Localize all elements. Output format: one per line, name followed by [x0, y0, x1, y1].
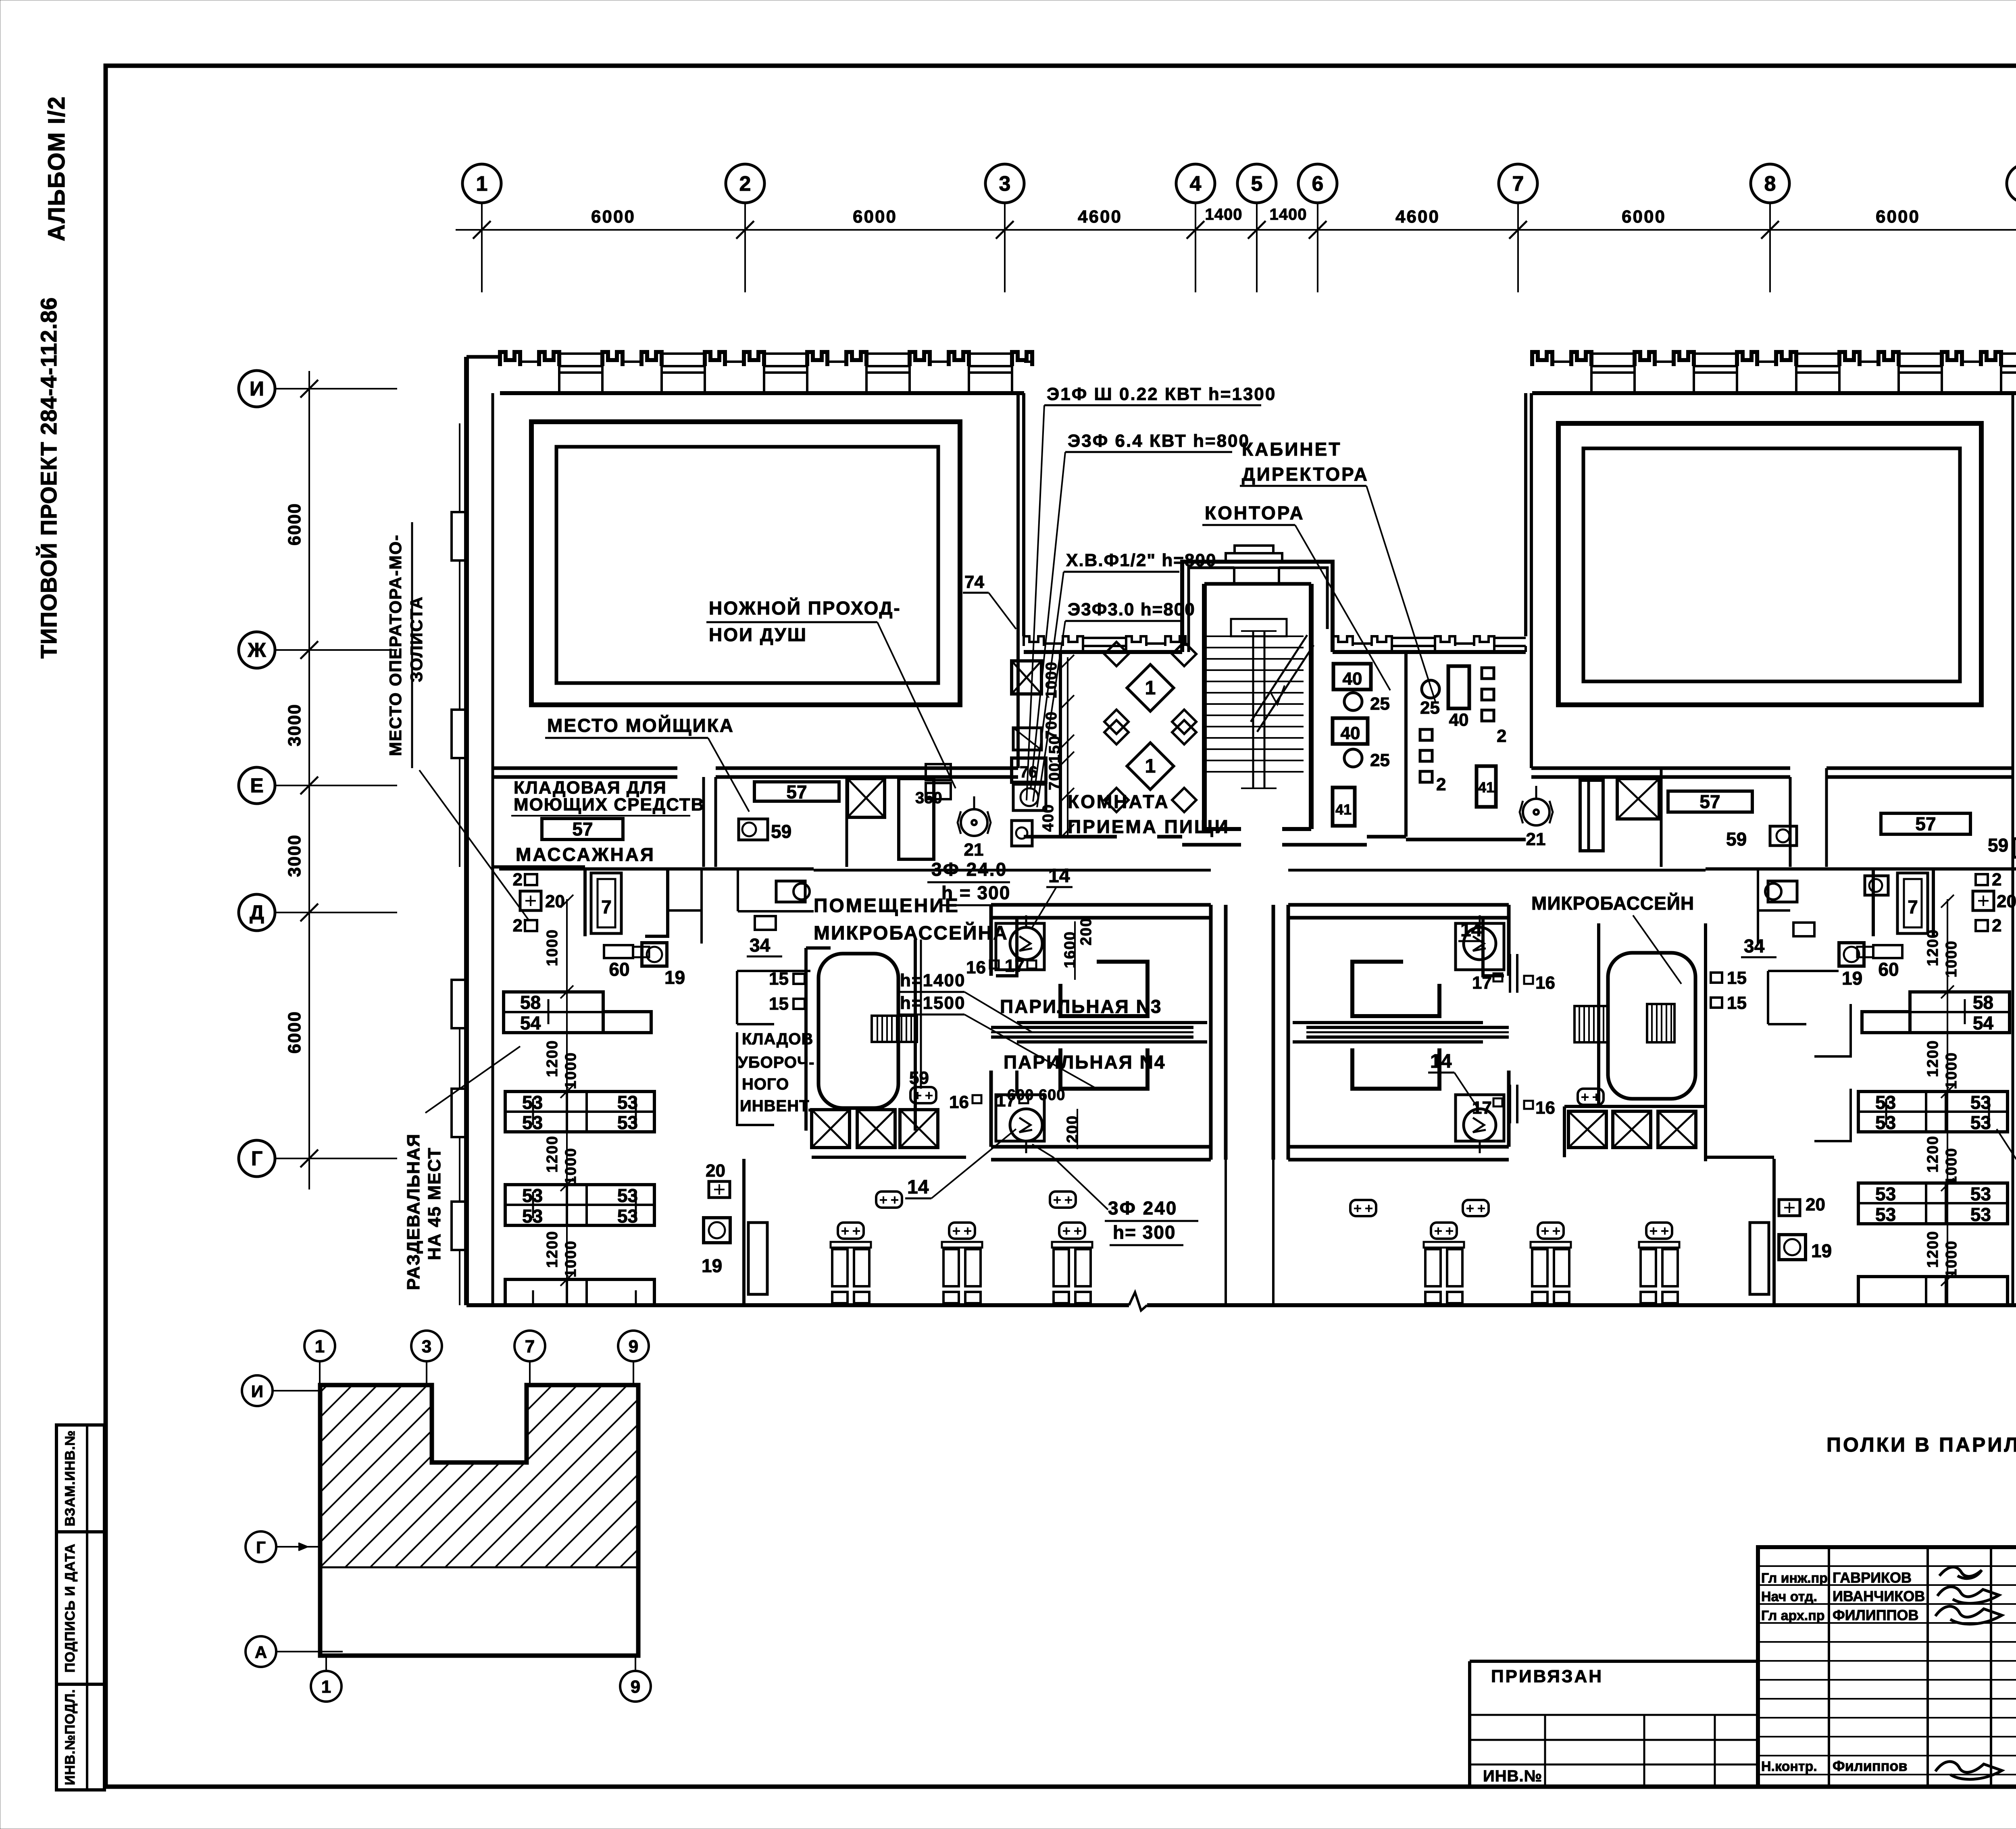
leader ножной душ: [877, 622, 956, 788]
svg-text:МЕСТО ОПЕРАТОРА-МО-: МЕСТО ОПЕРАТОРА-МО-: [386, 534, 405, 756]
equipment box 57 right no.1: [1668, 791, 1752, 812]
grid axis circle 4: [1176, 164, 1215, 203]
toilet fixture right: [1768, 881, 1797, 902]
svg-text:25: 25: [1420, 698, 1440, 718]
svg-text:h= 300: h= 300: [1113, 1222, 1176, 1243]
svg-text:150: 150: [1046, 735, 1063, 763]
note leader 2: [1031, 452, 1065, 790]
svg-text:И: И: [250, 377, 264, 400]
svg-text:19: 19: [1842, 968, 1862, 989]
svg-text:h=1400: h=1400: [900, 971, 965, 990]
svg-text:А: А: [255, 1643, 267, 1662]
svg-text:1000: 1000: [562, 1148, 579, 1185]
svg-text:6000: 6000: [591, 207, 635, 227]
dim chain entry: [1067, 657, 1068, 837]
parilnya right block top wall: [1288, 903, 1509, 907]
corridor walls to floor: [1225, 1160, 1227, 1305]
svg-text:2: 2: [1497, 726, 1506, 746]
note leader 4: [1037, 621, 1065, 807]
bench row partial bottom right: [1858, 1277, 2008, 1305]
stove heater N3: [1010, 927, 1042, 960]
svg-text:21: 21: [1526, 829, 1546, 849]
parilnya N4 walls: [989, 1071, 993, 1147]
lower centre top wall right: [1288, 869, 1706, 872]
key plan axis circle 9 top: [618, 1331, 649, 1361]
top dimension line: [456, 229, 2016, 231]
svg-text:54: 54: [520, 1012, 541, 1033]
wash hall bottom wall left wing: [493, 767, 677, 770]
svg-text:2: 2: [513, 870, 523, 890]
stair bottom walls with door: [1204, 827, 1241, 831]
equipment box 57 no.1: [542, 819, 623, 840]
bench row 58-54 left: [504, 992, 603, 1033]
svg-text:h=1500: h=1500: [900, 993, 965, 1013]
partition wall kladovaya: [493, 865, 585, 869]
svg-text:53: 53: [617, 1092, 638, 1113]
left document strip: [56, 1425, 104, 1790]
svg-text:53: 53: [617, 1112, 638, 1133]
parilnya corridor wall right: [1272, 905, 1275, 1160]
svg-text:40: 40: [1449, 710, 1469, 730]
svg-text:ПОЛКИ В ПАРИЛЬНЫХ N3 И N4: ПОЛКИ В ПАРИЛЬНЫХ N3 И N4 СМ. ЛИСТ 35.: [1826, 1433, 2016, 1456]
microbassein pool right: [1608, 953, 1695, 1099]
parilnya bottom wall: [991, 1145, 1211, 1149]
floor drain 21 right: [1523, 799, 1549, 825]
dressing top wall right: [1933, 867, 2016, 871]
svg-text:КОНТОРА: КОНТОРА: [1205, 502, 1305, 523]
right wing top castellated wall: [1532, 391, 2016, 395]
svg-text:40: 40: [1343, 669, 1362, 689]
svg-text:1600: 1600: [1062, 931, 1079, 969]
svg-text:19: 19: [1811, 1240, 1832, 1261]
right wing inner wall left side: [1530, 393, 1533, 768]
dressing dim chain left: [566, 899, 568, 1305]
svg-text:ПРИВЯЗАН: ПРИВЯЗАН: [1491, 1667, 1603, 1686]
svg-text:200: 200: [1078, 917, 1095, 945]
fixture 20 left: [520, 891, 541, 910]
svg-text:57: 57: [572, 819, 593, 840]
svg-text:700: 700: [1046, 762, 1063, 790]
sink small right: [1865, 876, 1888, 895]
fixture 19 right: [1839, 943, 1864, 966]
floor drain 21 left: [961, 809, 987, 836]
svg-text:53: 53: [1970, 1092, 1991, 1113]
bench row 53 right lower: [1858, 1183, 2008, 1224]
svg-text:ИВАНЧИКОВ: ИВАНЧИКОВ: [1833, 1588, 1925, 1604]
office fixture circle 25 no.1: [1344, 693, 1362, 710]
parilnya N4 inner top wall: [1017, 1040, 1207, 1044]
title block signature columns: [1828, 1547, 1830, 1787]
svg-text:2: 2: [1436, 775, 1446, 794]
fixtures 15 right: [1711, 973, 1722, 983]
svg-text:6000: 6000: [1876, 207, 1920, 227]
title block signature rows: [1758, 1565, 2016, 1567]
grid axis circle Е: [239, 767, 275, 804]
sink fixture 59 left: [739, 819, 768, 840]
svg-text:9: 9: [629, 1337, 638, 1356]
microbassein room walls right: [1597, 923, 1600, 1105]
svg-text:Ж: Ж: [247, 639, 266, 661]
svg-text:19: 19: [702, 1255, 722, 1276]
title block outline: [1758, 1547, 2016, 1787]
grid axis circle 3: [985, 164, 1024, 203]
svg-text:25: 25: [1370, 694, 1390, 714]
svg-text:Э3Ф3.0 h=800: Э3Ф3.0 h=800: [1068, 600, 1195, 619]
svg-text:1200: 1200: [1924, 929, 1941, 967]
svg-text:КАБИНЕТ: КАБИНЕТ: [1242, 439, 1341, 460]
svg-text:57: 57: [1915, 813, 1936, 834]
grid axis circle Д: [239, 894, 275, 931]
dressing benches bottom row: [838, 1223, 864, 1239]
svg-text:58: 58: [520, 992, 541, 1013]
office fixture circle 25 no.3: [1422, 680, 1439, 698]
svg-text:350: 350: [915, 789, 942, 807]
central castellated wall right part: [1333, 650, 1526, 654]
svg-text:МИКРОБАССЕЙН: МИКРОБАССЕЙН: [1531, 893, 1694, 914]
stove heater N4: [1010, 1109, 1042, 1141]
round fixture centre-left: [1013, 784, 1046, 810]
dining room table 2: [1127, 743, 1174, 790]
svg-text:400: 400: [1040, 804, 1057, 831]
svg-text:Д: Д: [250, 901, 264, 924]
fixture 19 left: [642, 943, 667, 966]
svg-text:9: 9: [631, 1677, 640, 1697]
parilnya N3 walls: [989, 905, 993, 976]
svg-text:6000: 6000: [853, 207, 897, 227]
svg-text:16: 16: [949, 1092, 969, 1112]
stove heater right N3: [1456, 923, 1504, 970]
ground floor line with break: [467, 1303, 1129, 1307]
key plan building outline: [320, 1385, 638, 1656]
tall bench left wall: [748, 1223, 767, 1294]
svg-text:54: 54: [1973, 1012, 1994, 1033]
svg-text:МЕСТО МОЙЩИКА: МЕСТО МОЙЩИКА: [547, 715, 734, 736]
ventilation shafts X row right: [1564, 1105, 1706, 1108]
svg-text:Н.контр.: Н.контр.: [1761, 1759, 1817, 1774]
svg-text:1000: 1000: [1943, 1240, 1960, 1278]
svg-text:17: 17: [1472, 1098, 1492, 1118]
svg-text:15: 15: [769, 994, 789, 1014]
svg-text:1000: 1000: [544, 929, 561, 967]
office partition wall: [1404, 652, 1408, 837]
svg-text:ФИЛИППОВ: ФИЛИППОВ: [1833, 1607, 1919, 1623]
svg-text:1: 1: [315, 1337, 325, 1356]
svg-text:Е: Е: [250, 774, 263, 797]
ventilation shaft X right: [1617, 779, 1659, 819]
fixture 2 square bottom right: [1976, 920, 1988, 931]
svg-text:19: 19: [664, 967, 685, 988]
svg-text:1200: 1200: [544, 1231, 561, 1268]
key plan hatching: [120, 1385, 877, 1567]
bench 60 right: [1873, 945, 1902, 958]
bench 60 left: [604, 945, 633, 958]
stair treads: [1207, 635, 1304, 637]
svg-text:2: 2: [1992, 916, 2001, 935]
svg-text:15: 15: [1727, 968, 1747, 988]
fixture D centre-left: [1012, 821, 1032, 846]
svg-text:53: 53: [1970, 1204, 1991, 1225]
central castellated wall left part: [1024, 650, 1182, 654]
parilnya right bottom wall: [1288, 1145, 1509, 1149]
office fixture 40 vertical box: [1448, 666, 1469, 708]
fixtures 15 left: [793, 974, 805, 984]
svg-text:МИКРОБАССЕЙНА: МИКРОБАССЕЙНА: [814, 922, 1008, 944]
svg-text:59: 59: [909, 1068, 929, 1088]
bench row 53 right upper: [1858, 1092, 2008, 1132]
left exterior wall with window bays: [464, 357, 469, 1305]
svg-text:1200: 1200: [1924, 1040, 1941, 1077]
office fixture circle 25 no.2: [1344, 749, 1362, 767]
svg-text:2: 2: [1992, 870, 2001, 890]
leader раздевальная right: [1997, 1129, 2016, 1197]
svg-text:14: 14: [907, 1177, 929, 1198]
dining room wall: [1059, 652, 1062, 837]
svg-text:ПОДПИСЬ И ДАТА: ПОДПИСЬ И ДАТА: [62, 1544, 78, 1673]
svg-text:21: 21: [964, 840, 984, 860]
privyazan block: [1470, 1660, 1758, 1663]
svg-text:1400: 1400: [1270, 206, 1307, 223]
left wing top castellated wall: [500, 391, 1024, 395]
stair upper landing: [1231, 619, 1287, 636]
svg-text:7: 7: [601, 896, 612, 917]
shower stall 7 left: [585, 869, 668, 936]
svg-text:ТИПОВОЙ ПРОЕКТ 284-4-112.86: ТИПОВОЙ ПРОЕКТ 284-4-112.86: [36, 297, 61, 659]
svg-text:МАССАЖНАЯ: МАССАЖНАЯ: [516, 844, 655, 865]
svg-text:16: 16: [1535, 973, 1555, 993]
microbassein pool left: [818, 954, 898, 1108]
tall bench right wall: [1750, 1223, 1769, 1294]
svg-text:53: 53: [1875, 1204, 1896, 1225]
bench small right of pool: [1578, 1089, 1604, 1105]
svg-text:1: 1: [476, 172, 488, 196]
toilet fixture left: [776, 881, 805, 902]
svg-text:41: 41: [1478, 779, 1494, 796]
wash hall bottom wall right wing: [1531, 767, 1661, 770]
parilnya right N4 inner top wall: [1293, 1040, 1483, 1044]
svg-text:16: 16: [966, 958, 986, 977]
svg-text:3000: 3000: [285, 834, 304, 877]
svg-text:1000: 1000: [562, 1240, 579, 1278]
fixture 2 square bottom left: [525, 920, 537, 931]
microbassein room walls left: [804, 948, 808, 1131]
svg-text:1: 1: [1145, 677, 1156, 699]
bench row 53 left lower: [505, 1185, 654, 1225]
grid axis circle 5: [1237, 164, 1276, 203]
svg-text:14: 14: [1460, 919, 1482, 941]
svg-text:Гл инж.пр: Гл инж.пр: [1761, 1571, 1828, 1586]
fixture 2 square top left: [525, 874, 537, 885]
svg-text:20: 20: [545, 892, 565, 911]
svg-text:34: 34: [1744, 935, 1765, 956]
leader место мойщика: [708, 738, 749, 812]
svg-text:3Ф 240: 3Ф 240: [1108, 1198, 1177, 1219]
bench row 53 left upper: [505, 1092, 654, 1132]
parilnya right N4 walls: [1507, 1071, 1511, 1147]
svg-text:1000: 1000: [1943, 1052, 1960, 1089]
stair section break diagonal: [1257, 645, 1314, 732]
office fixtures 40 box 1: [1333, 664, 1371, 690]
note leader контора: [1295, 525, 1390, 690]
svg-text:14: 14: [1430, 1051, 1452, 1072]
right pool outer wall: [1558, 423, 1981, 705]
central block bottom wall: [1024, 835, 1117, 839]
svg-text:ИНВЕНТ.: ИНВЕНТ.: [740, 1097, 812, 1115]
stove heater right N4: [1456, 1095, 1504, 1141]
svg-text:57: 57: [1699, 791, 1720, 812]
svg-text:41: 41: [1335, 801, 1352, 818]
duct shaft tall left: [899, 779, 934, 859]
parilnya right divider wall band: [1306, 1026, 1509, 1029]
svg-text:1: 1: [1145, 756, 1156, 777]
svg-text:1: 1: [321, 1677, 331, 1697]
note leader 1: [1027, 405, 1044, 800]
svg-text:ВЗАМ.ИНВ.№: ВЗАМ.ИНВ.№: [62, 1430, 78, 1527]
svg-text:34: 34: [750, 935, 771, 956]
svg-text:ИНВ.№: ИНВ.№: [1483, 1767, 1542, 1785]
grid axis circle 8: [1751, 164, 1789, 203]
svg-text:74: 74: [964, 572, 984, 592]
svg-text:58: 58: [1973, 992, 1993, 1013]
left pool inner wall: [556, 447, 938, 683]
svg-text:17: 17: [1472, 973, 1492, 993]
lower centre top wall left: [814, 869, 1211, 872]
office fixture 41 box 2: [1477, 766, 1496, 807]
svg-text:Г: Г: [256, 1538, 266, 1557]
svg-text:Э1Ф Ш 0.22 КВТ h=1300: Э1Ф Ш 0.22 КВТ h=1300: [1047, 384, 1276, 404]
office small square fixtures 2 col right: [1482, 668, 1494, 679]
key plan axis circle 9 bottom: [620, 1671, 651, 1702]
key plan axis circle 3 top: [411, 1331, 442, 1361]
office fixtures 40 box 2: [1333, 718, 1368, 744]
parilnya N3 bench platform: [1060, 962, 1148, 1016]
svg-text:7: 7: [525, 1337, 535, 1356]
fixture 20 bottom left: [709, 1181, 730, 1198]
svg-text:7: 7: [1908, 896, 1918, 917]
svg-text:6000: 6000: [1622, 207, 1666, 227]
svg-text:6000: 6000: [285, 1011, 304, 1054]
svg-text:АЛЬБОМ I/2: АЛЬБОМ I/2: [44, 96, 70, 242]
stove alcove N3: [996, 923, 1044, 970]
svg-text:Э3Ф 6.4 КВТ h=800: Э3Ф 6.4 КВТ h=800: [1068, 431, 1250, 451]
svg-text:УБОРОЧ-: УБОРОЧ-: [738, 1054, 814, 1071]
svg-text:8: 8: [1764, 172, 1776, 196]
svg-text:КОМНАТА: КОМНАТА: [1068, 791, 1170, 812]
leader место оператора: [419, 770, 528, 919]
dining room table 1: [1127, 665, 1174, 711]
svg-text:6000: 6000: [285, 503, 304, 546]
pool grate left: [872, 1016, 917, 1042]
svg-text:600 600: 600 600: [1007, 1087, 1065, 1104]
svg-text:1200: 1200: [1924, 1231, 1941, 1268]
walls right small rooms: [1767, 971, 1769, 1024]
ventilation shaft X left: [848, 779, 885, 817]
sink 34 left: [755, 916, 776, 930]
grid axis circle 9: [2007, 164, 2016, 203]
svg-text:Г: Г: [251, 1147, 262, 1170]
svg-text:Филиппов: Филиппов: [1833, 1758, 1907, 1774]
equipment box 57 right no.2: [1881, 813, 1970, 834]
pool grate right: [1574, 1006, 1608, 1042]
svg-text:МОЮЩИХ СРЕДСТВ: МОЮЩИХ СРЕДСТВ: [514, 795, 704, 815]
grid axis circle Ж: [239, 632, 275, 668]
svg-text:РАЗДЕВАЛЬНАЯ: РАЗДЕВАЛЬНАЯ: [404, 1133, 423, 1290]
svg-text:2: 2: [739, 172, 751, 196]
svg-text:3: 3: [422, 1337, 431, 1356]
svg-text:4: 4: [1190, 172, 1202, 196]
note leader 3: [1033, 572, 1064, 802]
parilnya N3 inner bottom wall: [1017, 1021, 1207, 1024]
svg-text:1000: 1000: [1943, 940, 1960, 978]
svg-text:40: 40: [1341, 723, 1360, 743]
left wing inner wall right side: [1016, 393, 1020, 768]
office small square fixtures 2 col left: [1420, 729, 1432, 740]
svg-text:ИНВ.№ПОДЛ.: ИНВ.№ПОДЛ.: [62, 1689, 78, 1785]
small box centre-left: [1013, 728, 1041, 750]
svg-text:НА 45 МЕСТ: НА 45 МЕСТ: [425, 1147, 444, 1260]
key plan axis circle А: [246, 1636, 276, 1667]
key plan line at Г: [320, 1567, 638, 1569]
signature squiggles: [1939, 1567, 1982, 1578]
kladovaya walls left: [736, 971, 738, 1024]
svg-text:76: 76: [1020, 763, 1038, 781]
svg-text:1200: 1200: [1924, 1135, 1941, 1173]
svg-text:16: 16: [1535, 1098, 1555, 1118]
office fixture 41 box 1: [1333, 787, 1355, 826]
parilnya N4 bench platform: [1060, 1048, 1148, 1089]
svg-text:53: 53: [1970, 1183, 1991, 1204]
service partition walls: [702, 777, 705, 867]
entrance vestibule walls: [1182, 562, 1333, 652]
entrance porch steps: [1226, 553, 1282, 562]
fixture 20 bottom right: [1779, 1200, 1800, 1216]
key plan axis circle 1 bottom: [311, 1671, 342, 1702]
svg-text:ПАРИЛЬНАЯ N3: ПАРИЛЬНАЯ N3: [1000, 996, 1162, 1017]
parilnya block top wall: [991, 903, 1211, 907]
toilet rooms right walls: [1706, 867, 1851, 871]
leader 14 upper to stove: [1032, 887, 1056, 927]
svg-text:1000: 1000: [1043, 661, 1060, 699]
svg-text:59: 59: [1988, 835, 2008, 856]
parilnya right N3 inner bottom wall: [1293, 1021, 1483, 1024]
svg-text:700: 700: [1043, 711, 1060, 739]
svg-text:1200: 1200: [544, 1040, 561, 1077]
fixture 19 bottom right: [1779, 1235, 1806, 1260]
duct shaft tall right: [1580, 780, 1603, 851]
svg-text:Нач отд.: Нач отд.: [1761, 1589, 1817, 1604]
svg-text:4600: 4600: [1395, 207, 1440, 227]
svg-text:ПОМЕЩЕНИЕ: ПОМЕЩЕНИЕ: [814, 895, 960, 917]
leader 14 to stove N4: [931, 1129, 1016, 1198]
grid axis circle 6: [1298, 164, 1337, 203]
svg-text:НОЖНОЙ ПРОХОД-: НОЖНОЙ ПРОХОД-: [709, 598, 901, 619]
svg-text:60: 60: [1878, 959, 1899, 980]
grid axis circle И: [239, 371, 275, 407]
left dimension line: [308, 371, 310, 1189]
svg-text:3: 3: [999, 172, 1011, 196]
parilnya right N3 bench platform: [1352, 962, 1439, 1016]
svg-text:53: 53: [1970, 1112, 1991, 1133]
leader 3Ф240 to stove: [1032, 1144, 1108, 1210]
grid axis circle Г: [239, 1140, 275, 1177]
svg-text:ГАВРИКОВ: ГАВРИКОВ: [1833, 1569, 1912, 1586]
ventilation shafts X row left: [812, 1110, 850, 1148]
small benches at parilnya bottom: [876, 1192, 902, 1208]
svg-text:И: И: [251, 1382, 263, 1401]
svg-text:1200: 1200: [544, 1135, 561, 1173]
leader микробассейн: [1633, 915, 1681, 984]
parilnya right N4 bench platform: [1352, 1048, 1439, 1089]
svg-text:60: 60: [609, 959, 629, 980]
